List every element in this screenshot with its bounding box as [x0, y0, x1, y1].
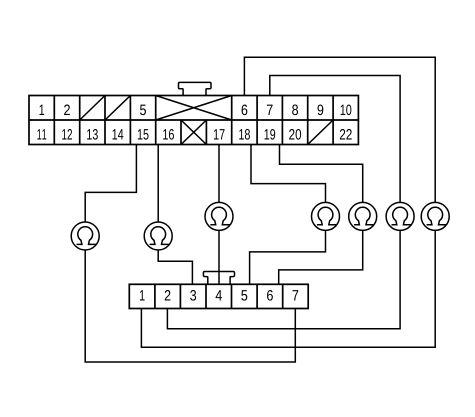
wire lamp L4 bottom to J2 pin5 [250, 230, 326, 284]
wire J1 pin7 top to lamp L6 top [270, 76, 400, 203]
J1 blocked cell diagonal (pos 3) [80, 96, 105, 121]
wire lamp L3 bottom to J2 pin4 [218, 230, 220, 284]
lamp L1 [71, 222, 99, 250]
J1 wide crossed cell [156, 96, 232, 121]
lamp L7 [421, 202, 449, 230]
4@218.8 [241, 290, 247, 300]
connector J2 (7-pin) body [129, 284, 308, 308]
6@244.4 [267, 105, 273, 115]
13@92.3 [113, 129, 124, 139]
lamp L4 [312, 202, 340, 230]
wire J1 pin17 to lamp L3 top [218, 145, 220, 203]
J1 bottom-row cell dividers [54, 120, 333, 145]
2@167.6 [190, 290, 196, 301]
J1 pin labels row 2 [37, 129, 351, 140]
wire J1 pin19 to lamp L5 top [280, 145, 363, 203]
7@269.7 [292, 105, 298, 116]
12@67.0 [87, 129, 98, 140]
14@117.7 [138, 129, 149, 139]
J1 blocked cell diagonal (pos 21) [308, 120, 333, 145]
wire lamp L6 bottom to J2 pin2 [167, 230, 400, 328]
lamp L2 [144, 222, 172, 250]
J1 crossed cell (between 16 and 17) [181, 120, 206, 145]
J1 blocked cell diagonal (pos 4) [105, 96, 130, 121]
J1 pin labels row 1 [40, 105, 352, 116]
J2 keying tab [203, 272, 234, 285]
18@244.4 [265, 129, 276, 140]
11@41.7 [62, 129, 72, 139]
lamp L6 [386, 202, 414, 230]
connector J1 (22-pin) outer body [29, 96, 358, 145]
1@41.7 [64, 105, 70, 115]
16@168.4 [214, 129, 225, 139]
wire J1 pin16 to lamp L2 top [157, 145, 159, 223]
wire J1 pin18 to lamp L4 top [251, 145, 326, 203]
9@320.4 [341, 105, 352, 116]
5@244.3 [267, 290, 273, 301]
3@193.2 [216, 290, 222, 300]
wire lamp L1 bottom to J2 pin7 [85, 250, 295, 362]
J1 keying tab [179, 82, 212, 95]
wire lamp L2 bottom to J2 pin3 [158, 250, 192, 284]
2@67.0 [140, 105, 146, 115]
lamp L3 [205, 202, 233, 230]
6@269.9 [293, 290, 299, 300]
J1 top-row cell dividers [54, 96, 333, 121]
J2 pin labels [140, 290, 298, 301]
8@295.1 [317, 105, 323, 116]
J2 cell dividers [155, 284, 283, 308]
wire lamp L7 bottom to J2 pin1 [141, 230, 435, 347]
17@219.1 [239, 129, 250, 140]
19@269.7 [289, 129, 301, 140]
wire J1 pin15 to lamp L1 top [85, 145, 136, 223]
wire lamp L5 bottom to J2 pin6 [279, 230, 363, 284]
20@295.1 [340, 129, 352, 139]
15@143.0 [163, 129, 174, 140]
5@143.0 [242, 105, 248, 116]
lamp L5 [349, 202, 377, 230]
wire J1 pin6 top to lamp L7 top [244, 57, 435, 202]
1@142.1 [165, 290, 171, 300]
